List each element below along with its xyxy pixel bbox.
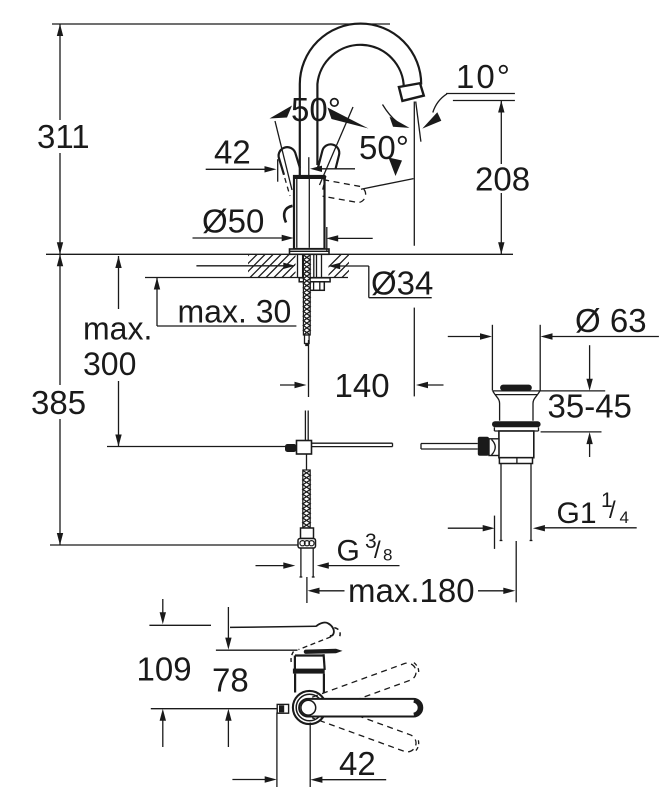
solid lever horizontal (299, 699, 422, 717)
50 deg label (spout swivel) (359, 94, 447, 176)
svg-text:109: 109 (137, 651, 192, 688)
svg-text:50°: 50° (359, 129, 409, 166)
svg-text:208: 208 (475, 160, 530, 197)
dashed lever up position (312, 660, 421, 714)
top reference line (52, 23, 390, 25)
svg-text:max.: max. (83, 311, 152, 347)
dashed open lever (down-right) (323, 179, 414, 203)
svg-text:385: 385 (31, 384, 86, 421)
drain flange (492, 391, 605, 421)
50 deg angle legs (275, 107, 353, 190)
side spout top line (230, 626, 316, 627)
side spout beak (316, 623, 340, 637)
dimension 140 (280, 340, 444, 404)
supply pipe (300, 548, 315, 577)
svg-text:35-45: 35-45 (548, 388, 632, 425)
drain seal ring (492, 421, 541, 431)
upper braided hose (303, 255, 310, 336)
spout outer curve (300, 24, 421, 176)
horizontal actuating rod (right segment) (421, 444, 478, 450)
deck hatching right (318, 254, 365, 277)
dimension max.180 (308, 572, 516, 609)
hose end tube (305, 335, 310, 346)
svg-text:G: G (337, 535, 360, 568)
drain centre line (515, 541, 517, 602)
svg-text:Ø 63: Ø 63 (575, 302, 647, 339)
side spout hidden underside (dashed) (299, 637, 332, 650)
spout inner curve (317, 45, 403, 165)
svg-text:G1: G1 (557, 497, 597, 530)
horizontal actuating rod (left segment) (312, 443, 393, 446)
pop-up rod cross joint (285, 441, 312, 455)
svg-text:Ø34: Ø34 (371, 265, 433, 302)
dimension 208 (475, 101, 530, 255)
svg-text:4: 4 (620, 508, 629, 527)
dimension max.300 (83, 256, 289, 447)
side body circles (293, 691, 326, 724)
svg-text:78: 78 (212, 662, 249, 699)
dimension 42 (side) (232, 713, 386, 788)
svg-text:311: 311 (37, 118, 90, 155)
svg-text:10°: 10° (456, 58, 512, 95)
dimension max.30 (154, 278, 297, 330)
mounting nut (310, 282, 324, 291)
dimension G3/8 (256, 530, 400, 569)
10 deg label (446, 58, 515, 101)
drain body (499, 431, 534, 458)
svg-text:Ø50: Ø50 (202, 203, 264, 240)
dashed lever down position (312, 701, 421, 755)
lever tilted-left cap (dashed position) (279, 147, 300, 196)
50 deg label (lever) (270, 91, 369, 129)
dimension 109 (137, 599, 192, 747)
pop-up rod knob (side) (277, 704, 288, 713)
vertical reference line from spout tip (413, 102, 415, 397)
dimension 35-45 (548, 345, 632, 457)
mounting deck bottom line (145, 277, 348, 279)
drain lever socket (478, 437, 499, 456)
dimension 78 (212, 607, 249, 747)
35-45 reference line (seal bottom) (541, 431, 602, 433)
dimension 311 (37, 24, 90, 254)
svg-text:max. 30: max. 30 (178, 294, 292, 330)
side lever blade (304, 649, 343, 654)
supply pipe centre line (306, 577, 308, 603)
dimension 385 (31, 254, 298, 545)
78 top reference line (216, 649, 298, 651)
mounting washer (299, 278, 330, 282)
svg-text:300: 300 (83, 346, 136, 382)
dimension Ø50 (193, 203, 373, 251)
faucet base flange (290, 249, 330, 254)
faucet body (294, 176, 325, 249)
dimension Ø34 (196, 263, 433, 302)
lever centre line (308, 157, 310, 175)
jet direction line (10 deg) (416, 102, 421, 142)
side body below band (295, 674, 324, 693)
dimension G1 1/4 (448, 489, 637, 549)
drain plug knob (500, 385, 532, 391)
drain tailpipe (500, 464, 533, 541)
G3/8 coupling nut (298, 539, 316, 549)
svg-text:/: / (609, 497, 616, 524)
pop-up rod vertical (305, 411, 308, 470)
mounting deck top line (46, 253, 513, 255)
dimension Ø63 (448, 302, 659, 340)
lever tilted-right cap (dashed position) (317, 144, 339, 193)
drain bottom nut (499, 458, 532, 464)
pop-up rod hook at body left (284, 206, 292, 223)
deck hatching left (226, 254, 313, 277)
side body dark band (293, 669, 325, 674)
hose end fitting (301, 528, 314, 539)
lower braided hose (303, 470, 310, 528)
svg-text:50°: 50° (291, 91, 341, 128)
109 top reference line (149, 624, 211, 626)
svg-text:8: 8 (383, 546, 392, 565)
svg-text:42: 42 (214, 134, 251, 171)
side body (291, 652, 325, 670)
drain extension lines (492, 325, 540, 391)
svg-text:/: / (374, 537, 381, 564)
dimension 42 (lever top) (206, 134, 355, 182)
svg-text:140: 140 (335, 367, 390, 404)
svg-text:max.180: max.180 (348, 572, 475, 609)
threaded shank below deck (298, 254, 322, 279)
svg-text:42: 42 (339, 745, 376, 782)
spout aerator (399, 83, 424, 101)
bottom reference line (151, 708, 277, 710)
